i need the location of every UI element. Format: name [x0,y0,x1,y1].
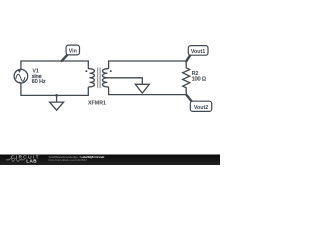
probe Vout1 [186,46,208,62]
ground (secondary center tap) [135,84,149,93]
wire bottom-left rail (V1 bottom to XFMR1 primary bottom) [21,83,88,96]
svg-text:http://circuitlab.com/c4t3567: http://circuitlab.com/c4t3567 [49,158,88,162]
transformer XFMR1 primary winding [88,61,94,95]
svg-text:LAB: LAB [26,159,37,164]
footer CircuitLab logo [6,154,40,163]
label R2 value text [192,71,206,83]
resistor R2 [183,68,190,95]
wire secondary center tap to ground [107,78,143,85]
voltage source V1 [14,69,28,83]
svg-text:Vin: Vin [69,49,77,55]
svg-text:Vout1: Vout1 [191,49,205,55]
label V1 value text [32,69,46,86]
probe Vin [62,45,80,61]
svg-text:60 Hz: 60 Hz [32,79,46,85]
footer attribution text [49,155,105,162]
transformer XFMR1 core lines [98,68,101,88]
svg-text:XFMR1: XFMR1 [88,101,106,107]
wire top-right rail (secondary top to R2 top) [109,61,187,68]
svg-text:100 Ω: 100 Ω [192,77,206,83]
wire top-left rail (V1 top to XFMR1 primary top) [21,61,88,70]
wire bottom-right rail (secondary bottom to R2 bottom) [109,94,187,96]
transformer XFMR1 primary polarity dot [85,70,87,72]
node junction dot on bottom rail [55,94,58,97]
probe Vout2 [186,95,211,112]
transformer XFMR1 secondary polarity dot [110,70,112,72]
transformer XFMR1 secondary winding [102,61,108,95]
ground (left, on bottom rail) [50,95,64,110]
svg-text:Vout2: Vout2 [194,105,208,111]
